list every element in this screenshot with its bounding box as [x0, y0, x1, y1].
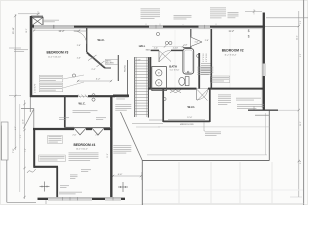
svg-text:2’-6”: 2’-6”: [73, 135, 77, 137]
svg-text:7’-6”: 7’-6”: [13, 148, 15, 153]
svg-text:7’-0”: 7’-0”: [25, 148, 27, 152]
svg-text:5’-1” X 2-0: 5’-1” X 2-0: [203, 54, 205, 62]
svg-text:10’-2”: 10’-2”: [26, 28, 28, 33]
svg-text:11’-6”: 11’-6”: [23, 119, 25, 124]
svg-text:2’-6”: 2’-6”: [205, 40, 209, 42]
svg-text:W.I.C.: W.I.C.: [79, 101, 86, 105]
svg-text:4’-2”: 4’-2”: [96, 79, 101, 81]
svg-text:11’-2” X 13’-4”: 11’-2” X 13’-4”: [225, 55, 237, 57]
svg-text:2’-10”: 2’-10”: [136, 59, 141, 61]
svg-text:11’-2”: 11’-2”: [229, 31, 235, 33]
svg-text:W.I.C.: W.I.C.: [98, 38, 106, 42]
svg-text:2’-8”: 2’-8”: [300, 20, 302, 24]
svg-text:W.I.C.: W.I.C.: [188, 105, 196, 109]
svg-text:MIRROR DOORS: MIRROR DOORS: [180, 124, 194, 126]
svg-text:3’-0” X 6-8: 3’-0” X 6-8: [206, 54, 208, 62]
svg-text:BEDROOM #2: BEDROOM #2: [222, 48, 244, 52]
svg-text:25’-2”: 25’-2”: [297, 35, 299, 40]
svg-text:2’-0”: 2’-0”: [77, 58, 81, 60]
svg-text:HALL: HALL: [139, 45, 146, 48]
svg-text:12’-2”: 12’-2”: [59, 31, 65, 33]
svg-text:2’-8”: 2’-8”: [300, 160, 302, 164]
svg-text:4 1/2 SLPD: 4 1/2 SLPD: [34, 83, 36, 93]
svg-text:4’-2”: 4’-2”: [15, 126, 17, 130]
svg-text:RAILING: RAILING: [124, 65, 127, 72]
svg-text:6’-6”: 6’-6”: [118, 174, 123, 176]
svg-text:1’-6”: 1’-6”: [195, 42, 199, 44]
svg-text:2’-2”: 2’-2”: [92, 69, 96, 71]
svg-text:ACCESS: ACCESS: [106, 62, 114, 65]
svg-text:$: $: [248, 35, 250, 39]
svg-text:BEDROOM #3: BEDROOM #3: [47, 50, 69, 54]
svg-text:25’-10”: 25’-10”: [13, 27, 15, 34]
svg-text:11’-2” X 13’-10”: 11’-2” X 13’-10”: [48, 56, 61, 58]
svg-text:10’-2” X 11’-0”: 10’-2” X 11’-0”: [76, 149, 88, 151]
svg-text:12’-0”: 12’-0”: [187, 117, 192, 119]
svg-text:$: $: [248, 29, 250, 33]
svg-text:1’-2”: 1’-2”: [300, 53, 302, 57]
svg-text:11’-6”: 11’-6”: [107, 153, 109, 158]
svg-text:2’-6”: 2’-6”: [96, 135, 100, 137]
svg-text:25’-2”: 25’-2”: [300, 121, 302, 126]
svg-text:BEDROOM #4: BEDROOM #4: [74, 143, 96, 147]
svg-text:2’-6”: 2’-6”: [77, 45, 81, 47]
svg-text:BATH: BATH: [169, 64, 177, 68]
svg-text:3’-6”: 3’-6”: [20, 134, 22, 138]
svg-text:2’-4”: 2’-4”: [154, 48, 158, 50]
svg-text:5’-0” X 8’-6”: 5’-0” X 8’-6”: [170, 69, 180, 71]
svg-text:2’-10”: 2’-10”: [173, 48, 179, 50]
